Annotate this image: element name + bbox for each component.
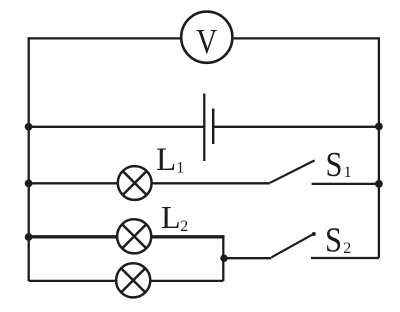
node battery right [375,123,383,131]
svg-text:V: V [196,22,217,61]
node S2 branch [220,255,227,262]
wire top left segment [29,37,181,39]
svg-text:2: 2 [180,218,188,235]
svg-text:1: 1 [344,164,352,181]
label L2 [161,199,188,235]
svg-text:2: 2 [343,240,351,257]
svg-text:S: S [325,221,342,260]
wire node to switch S2 [224,257,271,259]
node S1 right [375,180,383,188]
wire L3 row left [29,280,116,282]
svg-text:L: L [161,199,181,235]
wire L3 lamp to middle vertical [150,280,223,282]
svg-text:1: 1 [176,160,184,177]
lamp L3 [116,263,150,297]
label S2 [325,221,351,260]
battery B1 [204,94,213,162]
wire middle vertical [222,235,224,281]
wire battery left segment [29,126,205,128]
wire L1 row left [29,182,118,184]
switch S2 [272,232,379,258]
wire right vertical [378,37,380,258]
wire L2 row left (thick) [29,235,117,238]
wire L2 lamp to corner (thick) [151,235,224,238]
wire battery right segment [213,126,379,128]
node L2 left [25,233,33,241]
lamp L1 [118,166,152,200]
switch S1 [270,160,379,184]
node L1 left [25,180,33,188]
node battery left [25,123,33,131]
label L1 [156,142,184,178]
svg-text:L: L [156,142,176,178]
wire L1 lamp to switch [152,182,270,184]
svg-text:S: S [326,145,343,184]
voltmeter V [181,12,232,63]
wire top right segment [234,37,379,39]
lamp L2 [117,219,151,253]
label S1 [326,145,352,184]
wire left vertical [28,37,30,281]
